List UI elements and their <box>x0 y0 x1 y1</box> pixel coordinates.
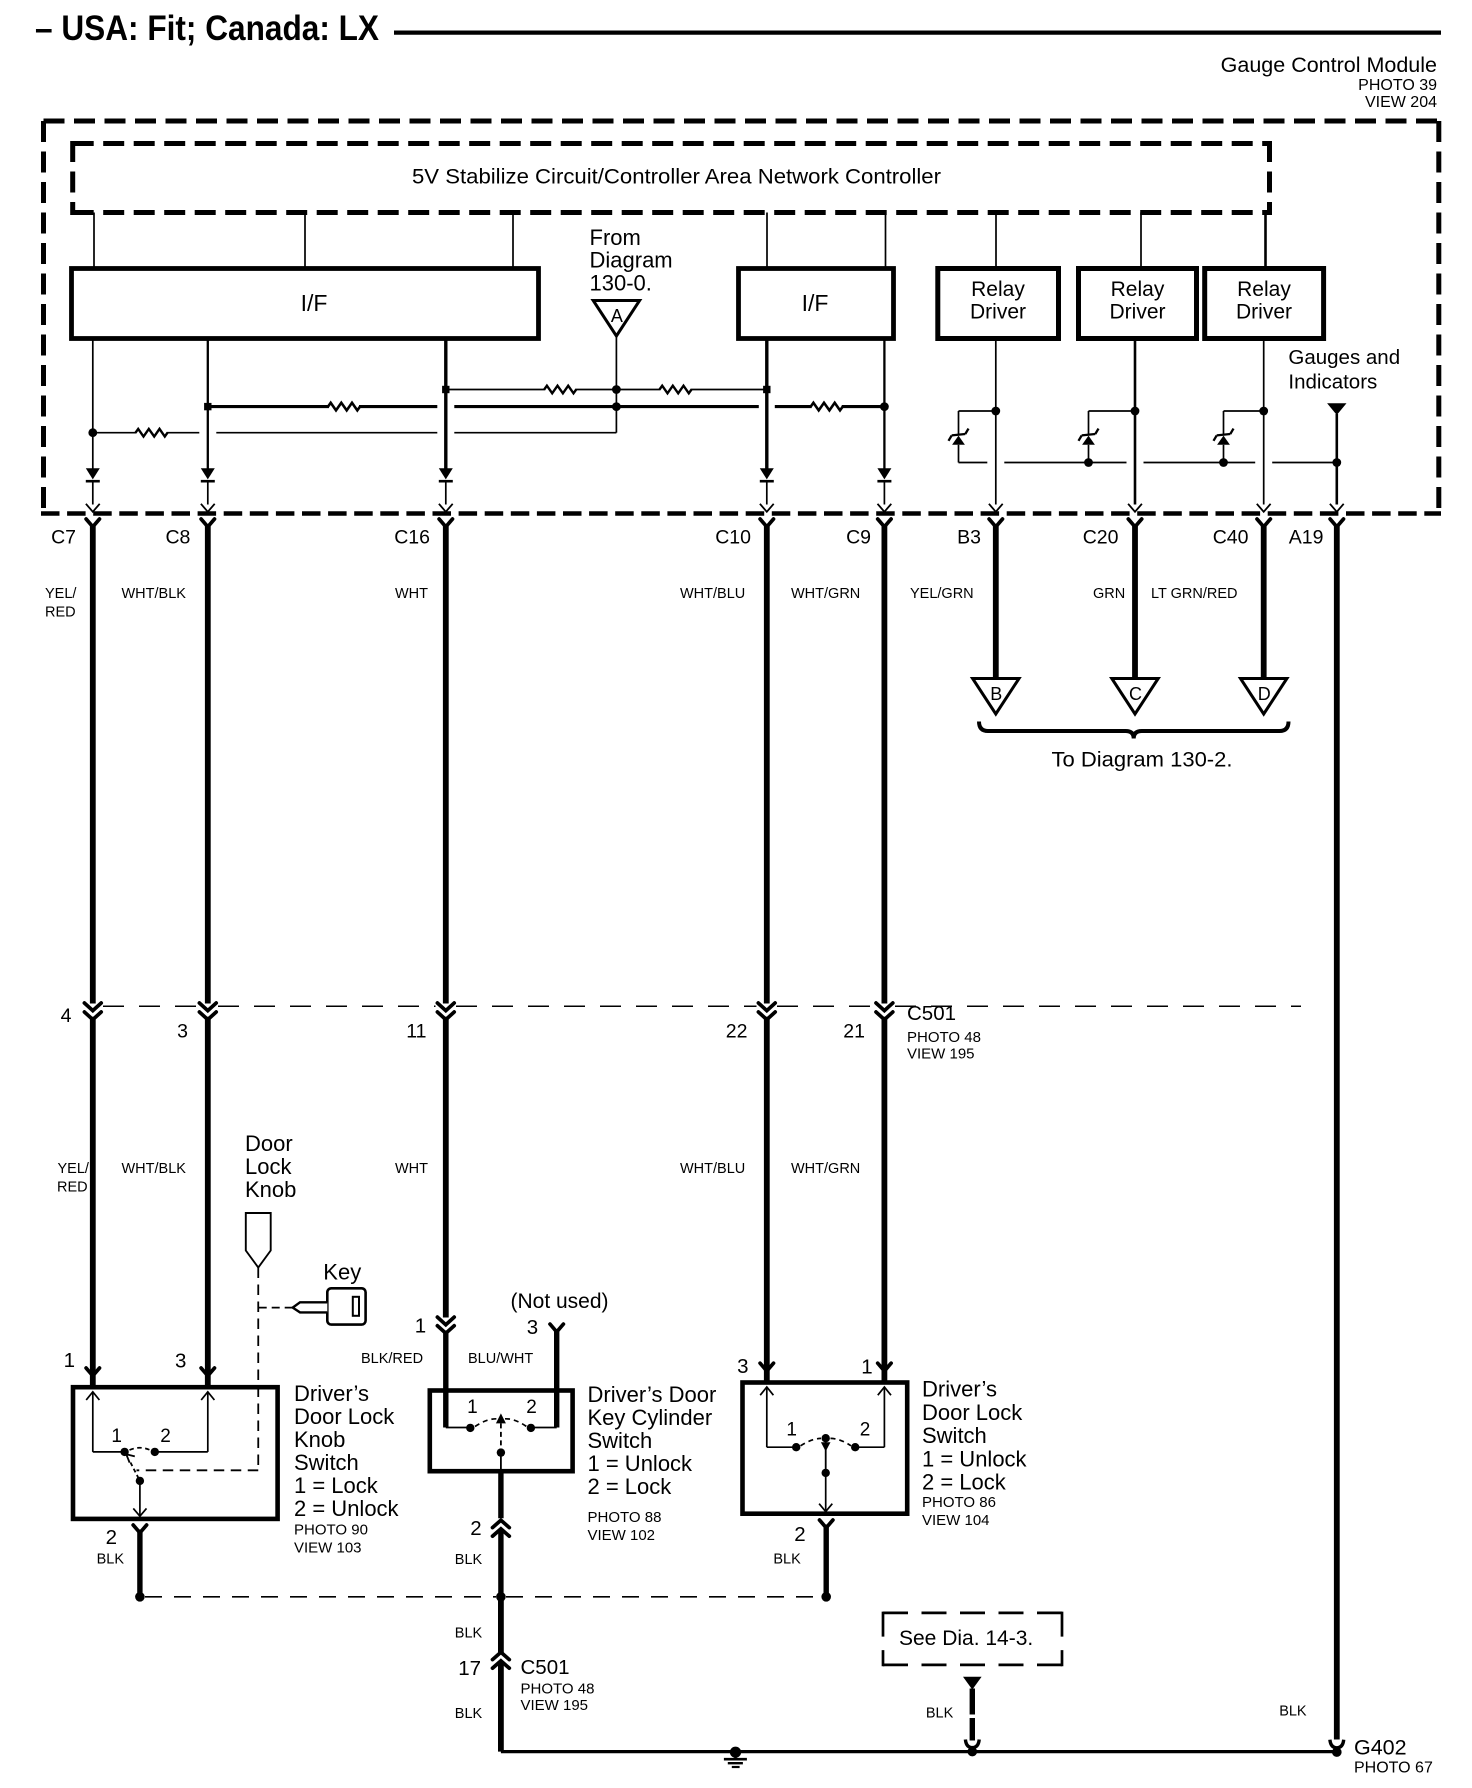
splice bus dashed wire (S1 to S2) <box>145 1596 496 1598</box>
zener return bus segment 1 <box>959 462 988 464</box>
svg-text:WHT: WHT <box>395 1161 428 1177</box>
svg-text:C40: C40 <box>1213 527 1249 549</box>
svg-text:3: 3 <box>527 1316 538 1339</box>
svg-text:PHOTO 90: PHOTO 90 <box>294 1522 368 1539</box>
wire S3 pin 2 (BLK) <box>824 1525 829 1597</box>
S2 internal contact 1 link <box>446 1427 471 1429</box>
S2 pole <box>500 1423 502 1452</box>
knob control dashed link into S1 <box>137 1469 259 1471</box>
wire BLK: C501-17 to ground bus <box>498 1663 504 1752</box>
key symbol <box>327 1288 365 1324</box>
driver's door key cylinder switch S2 box <box>430 1391 573 1472</box>
svg-text:Switch: Switch <box>922 1423 987 1448</box>
node A off-page triangle <box>593 301 639 337</box>
connector C501 dashed line <box>103 1005 198 1007</box>
wire: relay driver U6 to C40 <box>1263 339 1265 505</box>
svg-text:Driver’s Door: Driver’s Door <box>588 1382 717 1407</box>
svg-text:GRN: GRN <box>1093 586 1125 602</box>
wire C16 harness (WHT) upper <box>443 524 449 1004</box>
junction dot C7 / lower bus <box>88 428 97 437</box>
svg-text:A19: A19 <box>1289 527 1324 549</box>
svg-text:2: 2 <box>470 1517 481 1540</box>
svg-text:Door: Door <box>245 1131 293 1156</box>
door lock knob symbol <box>246 1213 271 1268</box>
wire: zener Z1 bottom <box>958 445 960 463</box>
wire C8 harness (WHT/BLK) lower <box>205 1017 211 1385</box>
wire C8 harness (WHT/BLK) upper <box>205 524 211 1004</box>
svg-text:Relay: Relay <box>1111 278 1165 301</box>
svg-text:1 = Unlock: 1 = Unlock <box>922 1447 1028 1472</box>
svg-text:WHT/BLU: WHT/BLU <box>680 1161 745 1177</box>
see-dia wire ground cup <box>965 1740 979 1748</box>
S3 pin 1 connector cup <box>878 1363 891 1371</box>
lower resistor bus wire segment (C7 to C8 gap) <box>93 432 200 434</box>
svg-text:C20: C20 <box>1083 527 1119 549</box>
svg-text:D: D <box>1258 684 1271 704</box>
S1 pole pivot dot <box>136 1477 144 1485</box>
pin C20 exit arrowhead <box>1128 504 1142 512</box>
5V stabilize / CAN controller block dashed box <box>73 141 1270 146</box>
wire BLK: splice to C501 pin 17 <box>498 1597 504 1653</box>
connector C501 joint pin 17 <box>493 1652 510 1659</box>
wire: relay driver U5 to C20 <box>1134 339 1137 505</box>
wire A19 harness (BLK) to G402 <box>1334 524 1340 1740</box>
junction dot node A / mid bus <box>612 402 621 411</box>
svg-text:WHT: WHT <box>395 586 428 602</box>
mid resistor bus wire segment (C10 gap to C9) <box>775 405 885 408</box>
svg-text:3: 3 <box>177 1021 188 1043</box>
S2 contact 1 dot <box>466 1424 474 1432</box>
svg-text:Driver: Driver <box>1110 301 1166 324</box>
svg-text:22: 22 <box>726 1021 748 1043</box>
wire: I/F U3 to C9 column <box>883 339 885 469</box>
brace under B C D <box>979 722 1289 739</box>
wire: I/F U2 to C7 column <box>92 339 94 469</box>
relay driver U4 <box>938 269 1059 339</box>
svg-text:4: 4 <box>61 1005 72 1027</box>
S3 pin 1 internal arrow <box>878 1387 891 1395</box>
diode D5 (C9 column) <box>877 468 891 479</box>
zener diode Z2 <box>1082 436 1095 445</box>
lower resistor bus wire segment (C16 gap to node A) <box>454 432 616 434</box>
S2 pole arrow (up) <box>496 1413 506 1423</box>
relay driver U5 <box>1079 269 1197 339</box>
svg-text:C: C <box>1129 684 1142 704</box>
svg-text:3: 3 <box>737 1355 748 1378</box>
wire: CAN block to relay driver U6 <box>1264 213 1267 269</box>
zener return bus segment 4 <box>1272 462 1337 464</box>
zener diode Z1 <box>952 436 965 445</box>
svg-text:BLK: BLK <box>455 1706 483 1722</box>
title rule <box>394 30 1441 34</box>
svg-text:C10: C10 <box>715 527 751 549</box>
S1 pole arrow toward contact 1 <box>126 1454 135 1462</box>
S1 internal wire pin1 to contact 1 <box>92 1392 94 1452</box>
pin A19 exit arrowhead <box>1330 504 1344 512</box>
wire C7 harness (YEL/RED) lower <box>90 1017 96 1385</box>
wire: CAN block to I/F U2 pin a <box>93 213 95 269</box>
svg-text:B: B <box>990 684 1002 704</box>
svg-text:2: 2 <box>526 1397 537 1418</box>
S2 pole junction dot <box>497 1448 505 1456</box>
wire BLK from see-dia arrow (lower) <box>970 1718 975 1741</box>
S3 pin 2 connector cup <box>820 1520 833 1528</box>
junction dot zener Z3 / return bus <box>1219 458 1228 467</box>
wire C9 harness (WHT/GRN) upper <box>882 524 888 1004</box>
zener diode Z3 <box>1217 436 1230 445</box>
svg-text:Door Lock: Door Lock <box>922 1400 1023 1425</box>
S1 throw arc dashes <box>130 1448 151 1450</box>
diode D4 (C10 column) <box>760 468 774 479</box>
wire: zener Z2 bottom <box>1088 445 1090 463</box>
wire S2 pin 3 stub <box>554 1329 559 1428</box>
S1 pin 3 internal arrow <box>201 1392 214 1400</box>
svg-text:YEL/: YEL/ <box>58 1161 90 1177</box>
connector C501 joint on C10 wire (pin 22) <box>758 1003 775 1011</box>
wire: CAN block to I/F U3 pin a <box>766 213 768 269</box>
S3 pin 3 connector cup <box>760 1363 773 1371</box>
driver's door lock switch S3 box <box>743 1383 908 1514</box>
diode D2 (C8 column) <box>201 468 215 479</box>
S1 pin 3 connector cup <box>201 1368 214 1376</box>
svg-text:1 = Lock: 1 = Lock <box>294 1473 379 1498</box>
svg-text:VIEW 204: VIEW 204 <box>1365 94 1437 111</box>
wire: gauges to A19 <box>1336 414 1339 505</box>
svg-text:Driver’s: Driver’s <box>294 1381 369 1406</box>
junction dot B3 / zener Z1 tap <box>991 407 1000 416</box>
svg-text:From: From <box>590 225 641 250</box>
svg-text:Indicators: Indicators <box>1288 371 1377 394</box>
ground G402 symbol <box>730 1747 741 1758</box>
wire S2 pin 2 (BLK) above joint <box>498 1471 503 1518</box>
node C off-page triangle <box>1112 679 1158 715</box>
svg-text:Relay: Relay <box>1237 278 1291 301</box>
svg-text:BLK: BLK <box>455 1552 483 1568</box>
S3 pole top dot <box>822 1434 830 1442</box>
wire S2 pin 1 (BLK/RED) <box>443 1331 448 1428</box>
svg-text:C7: C7 <box>51 527 76 549</box>
wire S1 pin2 (BLK) <box>137 1530 142 1597</box>
svg-text:1 = Unlock: 1 = Unlock <box>588 1451 694 1476</box>
wire: I/F U3 to C10 column <box>765 339 768 469</box>
wire: zener Z3 top elbow <box>1224 410 1264 412</box>
svg-text:BLK: BLK <box>455 1625 483 1641</box>
svg-text:130-0.: 130-0. <box>590 271 652 296</box>
svg-text:Driver: Driver <box>1236 301 1292 324</box>
svg-text:VIEW 104: VIEW 104 <box>922 1512 990 1529</box>
svg-text:11: 11 <box>406 1021 426 1043</box>
wire S2 pin 2 (BLK) to splice <box>498 1531 503 1597</box>
S2 throw arc dashes <box>475 1419 497 1427</box>
svg-text:VIEW 102: VIEW 102 <box>588 1527 656 1544</box>
knob mechanical dashed link (vertical) <box>257 1268 259 1471</box>
S3 pin 2 exit arrowhead <box>819 1504 832 1512</box>
S2 pin 1 inline connector <box>437 1317 454 1325</box>
S1 pin 1 connector cup <box>86 1368 99 1376</box>
S1 contact 1 dot <box>120 1448 128 1456</box>
svg-text:Gauge Control Module: Gauge Control Module <box>1221 53 1437 77</box>
wire C40 harness (LT GRN/RED) <box>1261 524 1267 679</box>
S1 pin 1 internal arrow <box>86 1392 99 1400</box>
svg-text:C9: C9 <box>846 527 871 549</box>
svg-text:A: A <box>611 306 623 326</box>
svg-text:Driver’s: Driver’s <box>922 1377 997 1402</box>
svg-text:2 = Lock: 2 = Lock <box>588 1474 673 1499</box>
pin C7 exit arrowhead <box>86 504 100 512</box>
svg-text:2: 2 <box>160 1426 171 1447</box>
connector stub C10 <box>760 519 773 527</box>
wire: CAN block to I/F U3 pin b <box>885 213 887 269</box>
svg-text:WHT/BLK: WHT/BLK <box>122 586 187 602</box>
svg-text:PHOTO 48: PHOTO 48 <box>521 1681 595 1698</box>
S3 contact 1 dot <box>792 1443 800 1451</box>
svg-text:YEL/GRN: YEL/GRN <box>910 586 974 602</box>
connector C501 joint on C8 wire (pin 3) <box>199 1003 216 1011</box>
S3 pole junction dot <box>822 1469 830 1477</box>
wire: node A vertical <box>615 336 617 433</box>
gauge control module U1 dashed outline <box>41 121 46 513</box>
S3 pole <box>825 1442 827 1473</box>
diode D1 (C7 column) <box>86 468 100 479</box>
resistor R2 <box>661 384 691 395</box>
svg-text:WHT/BLK: WHT/BLK <box>122 1161 187 1177</box>
splice dot S2 <box>496 1592 506 1602</box>
svg-text:1: 1 <box>861 1356 872 1379</box>
I/F block U2 <box>72 269 539 339</box>
svg-text:VIEW 195: VIEW 195 <box>521 1697 589 1714</box>
pin C16 exit arrowhead <box>439 504 453 512</box>
svg-text:PHOTO 86: PHOTO 86 <box>922 1494 996 1511</box>
svg-text:1: 1 <box>786 1420 797 1441</box>
pin C10 exit arrowhead <box>760 504 774 512</box>
S1 pin 2 exit arrowhead <box>133 1508 146 1516</box>
svg-text:RED: RED <box>57 1180 88 1196</box>
wire: relay driver U4 to B3 <box>995 339 997 505</box>
svg-text:1: 1 <box>467 1397 478 1418</box>
svg-text:2 = Lock: 2 = Lock <box>922 1470 1007 1495</box>
S1 pole (dashed diagonal) <box>131 1463 140 1481</box>
relay driver U6 <box>1205 269 1324 339</box>
S1 internal wire pin3 to contact 2 <box>207 1392 209 1452</box>
connector stub C40 <box>1257 519 1270 527</box>
module boundary (connector face) dashed line <box>41 511 1441 516</box>
node B off-page triangle <box>973 679 1019 715</box>
svg-text:PHOTO 67: PHOTO 67 <box>1354 1760 1433 1777</box>
wire C9 harness (WHT/GRN) lower <box>882 1017 888 1381</box>
svg-text:Key: Key <box>323 1260 361 1285</box>
connector stub B3 <box>989 519 1002 527</box>
S2 pole to pin 2 <box>500 1453 502 1472</box>
connector C501 joint on C16 wire (pin 11) <box>437 1003 454 1011</box>
svg-text:(Not used): (Not used) <box>511 1290 609 1313</box>
svg-text:2 = Unlock: 2 = Unlock <box>294 1496 400 1521</box>
S2 pin 2 inline connector <box>493 1520 510 1527</box>
pin C40 exit arrowhead <box>1257 504 1271 512</box>
junction dot C20 / zener Z2 tap <box>1131 407 1140 416</box>
wire: CAN block to relay driver U5 <box>1140 213 1142 269</box>
key mechanical dashed link <box>258 1307 292 1309</box>
svg-text:Lock: Lock <box>245 1154 292 1179</box>
svg-text:PHOTO 48: PHOTO 48 <box>907 1029 981 1046</box>
svg-text:BLK: BLK <box>926 1706 954 1722</box>
svg-text:YEL/: YEL/ <box>45 586 77 602</box>
svg-text:C501: C501 <box>907 1002 956 1025</box>
svg-text:Diagram: Diagram <box>590 248 673 273</box>
svg-text:BLU/WHT: BLU/WHT <box>468 1351 533 1367</box>
svg-text:2: 2 <box>860 1420 871 1441</box>
see-dia feed arrow (filled) <box>963 1677 982 1690</box>
svg-text:See Dia. 14-3.: See Dia. 14-3. <box>899 1627 1033 1650</box>
svg-text:VIEW 103: VIEW 103 <box>294 1540 362 1557</box>
svg-text:WHT/GRN: WHT/GRN <box>791 1161 860 1177</box>
diode D3 (C16 column) <box>439 468 453 479</box>
svg-text:2: 2 <box>794 1523 805 1546</box>
svg-text:21: 21 <box>843 1021 865 1043</box>
S3 internal wire pin3 to contact 1 <box>766 1387 768 1447</box>
svg-text:WHT/GRN: WHT/GRN <box>791 586 860 602</box>
wire C16 harness (WHT then BLK/RED) lower <box>443 1017 449 1318</box>
connector stub C7 <box>86 519 99 527</box>
svg-text:Knob: Knob <box>294 1427 345 1452</box>
node D off-page triangle <box>1241 679 1287 715</box>
S2 contact 2 dot <box>527 1424 535 1432</box>
S3 throw arc dashes <box>801 1438 822 1445</box>
svg-text:2: 2 <box>106 1526 117 1549</box>
wire: zener Z3 bottom <box>1223 445 1225 463</box>
ground bus wire <box>501 1750 1337 1753</box>
svg-text:Gauges and: Gauges and <box>1288 346 1400 369</box>
svg-text:WHT/BLU: WHT/BLU <box>680 586 745 602</box>
svg-text:1: 1 <box>111 1426 122 1447</box>
svg-text:BLK: BLK <box>773 1552 801 1568</box>
svg-text:– USA: Fit; Canada: LX: – USA: Fit; Canada: LX <box>35 9 380 48</box>
zener return bus segment 3 <box>1144 462 1256 464</box>
connector stub A19 <box>1330 519 1343 527</box>
connector C501 joint on C9 wire (pin 21) <box>876 1003 893 1011</box>
S3 pin 3 internal arrow <box>760 1387 773 1395</box>
junction square C16 / upper bus <box>442 386 449 393</box>
svg-text:RED: RED <box>45 605 76 621</box>
junction dot C40 / zener Z3 tap <box>1259 407 1268 416</box>
junction dot node A / upper bus <box>612 385 621 394</box>
splice dot on ground bus (A19/G402) <box>1332 1747 1342 1757</box>
svg-text:Switch: Switch <box>588 1428 653 1453</box>
wire: zener Z1 top elbow <box>959 410 996 412</box>
svg-text:17: 17 <box>458 1657 481 1680</box>
pin B3 exit arrowhead <box>989 504 1003 512</box>
S3 internal wire pin1 to contact 2 <box>883 1387 885 1447</box>
driver's door lock knob switch S1 box <box>73 1387 278 1519</box>
svg-text:LT GRN/RED: LT GRN/RED <box>1151 586 1237 602</box>
wire: zener Z2 top elbow <box>1089 410 1136 412</box>
pin C8 exit arrowhead <box>201 504 215 512</box>
I/F block U3 <box>739 269 894 339</box>
junction dot A19 / zener return bus <box>1332 458 1341 467</box>
resistor R3 <box>329 401 359 412</box>
splice dot S1 <box>135 1592 145 1602</box>
upper resistor bus wire (C16 to C10) <box>446 389 767 391</box>
svg-text:BLK: BLK <box>1279 1704 1307 1720</box>
wire C10 harness (WHT/BLU) lower <box>764 1017 770 1381</box>
wire C20 harness (GRN) <box>1132 524 1138 679</box>
wire: CAN block to relay driver U4 <box>995 213 997 269</box>
wire BLK from see-dia arrow (upper) <box>970 1689 975 1715</box>
svg-text:G402: G402 <box>1354 1736 1407 1760</box>
svg-text:I/F: I/F <box>802 290 829 316</box>
svg-text:Knob: Knob <box>245 1177 296 1202</box>
S3 contact 2 dot <box>851 1443 859 1451</box>
zener return bus segment 2 <box>1004 462 1126 464</box>
wire: I/F U2 to C8 column <box>207 339 209 469</box>
resistor R4 <box>812 401 842 412</box>
see dia. 14-3 dashed box <box>883 1612 1062 1615</box>
connector stub C8 <box>201 519 214 527</box>
svg-text:I/F: I/F <box>301 290 328 316</box>
svg-text:3: 3 <box>175 1350 186 1373</box>
S1 contact 2 dot <box>151 1448 159 1456</box>
S2 pin 3 stub cup <box>550 1324 563 1332</box>
S1 pole to pin 2 <box>139 1481 141 1515</box>
gauges feed arrow (filled) <box>1327 403 1346 415</box>
S3 pole arrow (down) <box>821 1442 831 1451</box>
svg-text:1: 1 <box>64 1349 75 1372</box>
svg-text:Relay: Relay <box>971 278 1025 301</box>
svg-text:To Diagram 130-2.: To Diagram 130-2. <box>1052 748 1233 772</box>
svg-text:C16: C16 <box>394 527 430 549</box>
svg-text:C8: C8 <box>165 527 190 549</box>
connector stub C9 <box>878 519 891 527</box>
svg-text:1: 1 <box>415 1315 426 1338</box>
svg-text:Switch: Switch <box>294 1450 359 1475</box>
wire B3 harness (YEL/GRN) <box>993 524 999 679</box>
wire: CAN block to I/F U2 pin b <box>304 213 306 269</box>
splice dot on ground bus (see-dia) <box>968 1747 978 1757</box>
S2 internal contact 2 link <box>531 1427 557 1429</box>
svg-text:BLK: BLK <box>97 1551 125 1567</box>
svg-text:5V Stabilize Circuit/Controlle: 5V Stabilize Circuit/Controller Area Net… <box>412 165 941 189</box>
resistor R1 <box>545 384 575 395</box>
junction square C8 / mid bus <box>204 403 211 410</box>
wire: CAN block to I/F U2 pin c <box>512 213 514 269</box>
connector stub C20 <box>1128 519 1141 527</box>
connector stub C16 <box>439 519 452 527</box>
mid resistor bus wire segment (C8 to C16 gap) <box>208 405 437 408</box>
S3 pole to pin 2 <box>825 1473 827 1510</box>
svg-text:PHOTO 88: PHOTO 88 <box>588 1509 662 1526</box>
junction square C10 / upper bus <box>763 386 770 393</box>
S1 pin 2 connector cup <box>133 1525 146 1533</box>
resistor R5 <box>137 427 167 438</box>
svg-text:B3: B3 <box>957 527 981 549</box>
svg-text:C501: C501 <box>521 1656 570 1679</box>
svg-text:Driver: Driver <box>970 301 1026 324</box>
svg-text:PHOTO 39: PHOTO 39 <box>1358 77 1437 94</box>
splice dot S3 <box>821 1592 831 1602</box>
pin C9 exit arrowhead <box>878 504 892 512</box>
splice bus dashed wire (S2 to S3) <box>506 1596 821 1598</box>
A19 wire ground cup <box>1330 1740 1344 1748</box>
lower resistor bus wire segment (C8 gap to C16 gap) <box>216 432 437 434</box>
junction dot C9 / mid bus <box>880 402 889 411</box>
svg-text:VIEW 195: VIEW 195 <box>907 1046 975 1063</box>
svg-text:BLK/RED: BLK/RED <box>361 1351 423 1367</box>
svg-text:Key Cylinder: Key Cylinder <box>588 1405 713 1430</box>
mid resistor bus wire segment (C16 gap to C10 gap) <box>454 405 759 408</box>
wire C10 harness (WHT/BLU) upper <box>764 524 770 1004</box>
wire: I/F U2 to C16 column <box>444 339 447 469</box>
junction dot zener Z2 / return bus <box>1084 458 1093 467</box>
wire C7 harness (YEL/RED) upper <box>90 524 96 1004</box>
